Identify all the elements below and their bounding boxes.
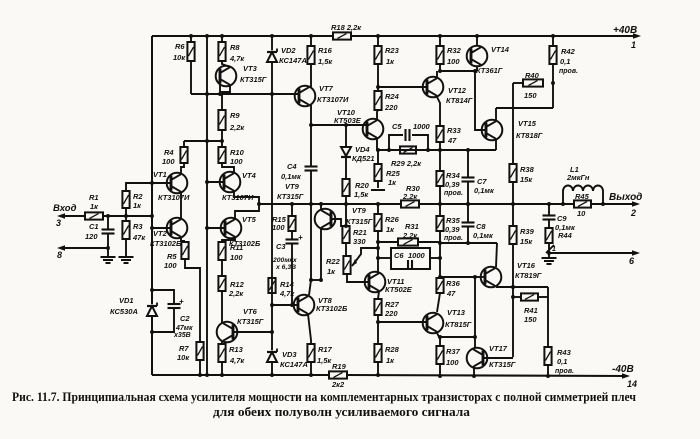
wire -40V bottom rail left segment (152, 374, 329, 376)
svg-text:VD4: VD4 (355, 145, 370, 154)
resistor R41 (521, 293, 538, 300)
svg-text:+: + (179, 297, 184, 306)
svg-text:КТ3102Б: КТ3102Б (316, 304, 348, 313)
wire VT6 emitter to R13 (221, 341, 223, 344)
resistor R33 (436, 126, 443, 142)
svg-text:х 6,3В: х 6,3В (275, 264, 296, 271)
wire VT16 emitter line (496, 286, 548, 288)
resistor R8 (218, 42, 225, 61)
wire -40V bottom rail right segment (347, 375, 627, 376)
wire VT9 base lead (331, 219, 346, 226)
svg-text:VT17: VT17 (489, 344, 508, 353)
wire R33 to bias row (439, 142, 441, 150)
resistor R40 (523, 79, 543, 86)
wire R2 to R3 (125, 208, 127, 221)
svg-text:R19: R19 (332, 362, 347, 371)
svg-text:VT14: VT14 (491, 45, 510, 54)
svg-text:4,7к: 4,7к (279, 289, 295, 298)
svg-text:R3: R3 (133, 222, 143, 231)
svg-text:14: 14 (627, 379, 637, 389)
svg-text:100: 100 (230, 157, 243, 166)
svg-text:R31: R31 (405, 222, 419, 231)
svg-text:С4: С4 (287, 162, 297, 171)
svg-text:КТ815Г: КТ815Г (445, 320, 472, 329)
svg-text:R22: R22 (326, 257, 341, 266)
resistor R18 (333, 32, 351, 39)
svg-text:R5: R5 (167, 252, 177, 261)
resistor R36 (436, 278, 443, 293)
resistor R28 (374, 344, 381, 362)
zener diode VD1 (147, 305, 157, 307)
transistor VT3 (216, 66, 237, 87)
transistor VT1 (167, 173, 188, 194)
svg-text:100: 100 (162, 157, 175, 166)
svg-text:КТ315Г: КТ315Г (346, 217, 373, 226)
resistor R10 (218, 147, 225, 163)
svg-text:пров.: пров. (444, 190, 463, 197)
wire VT12 emitter up (436, 71, 438, 78)
resistor R38 (509, 164, 516, 182)
svg-text:100: 100 (164, 261, 177, 270)
wire VT8 base lead (272, 304, 298, 306)
resistor R29 (400, 146, 416, 153)
resistor R5 (181, 242, 188, 259)
wire R23 top stub (377, 36, 379, 46)
wire R21 to R22 (345, 243, 347, 256)
resistor R31 (378, 241, 398, 243)
wire VT9 emitter join to VT8 collector (311, 279, 321, 281)
wire VT11 emitter to R27 (378, 291, 379, 299)
svg-text:КТ315Г: КТ315Г (489, 360, 516, 369)
wire R36 top line to VT16 base (440, 276, 475, 278)
svg-text:КС147А: КС147А (280, 360, 308, 369)
svg-text:R24: R24 (385, 92, 400, 101)
svg-text:2,2к: 2,2к (402, 231, 418, 240)
svg-text:100: 100 (272, 223, 285, 232)
wire R11 to R12 (221, 260, 223, 276)
svg-text:КТ819Г: КТ819Г (515, 271, 542, 280)
svg-text:Рис. 11.7. Принципиальная схем: Рис. 11.7. Принципиальная схема усилител… (12, 390, 636, 404)
wire R9 to R10 (221, 130, 223, 147)
svg-text:VT3: VT3 (243, 64, 258, 73)
wire C6 box stubs (378, 257, 391, 259)
svg-text:VТ9: VТ9 (285, 182, 300, 191)
svg-text:R11: R11 (230, 243, 243, 252)
svg-text:2,2к: 2,2к (229, 123, 245, 132)
transistor VT10 (363, 119, 384, 140)
wire R37 to bottom rail (439, 364, 441, 376)
svg-text:0,1мк: 0,1мк (281, 172, 302, 181)
svg-text:КТ315Г: КТ315Г (240, 75, 267, 84)
wire R22 bottom to VT11 base (347, 274, 369, 282)
svg-text:R9: R9 (230, 111, 240, 120)
svg-text:КС530А: КС530А (110, 307, 138, 316)
resistor R39 (512, 204, 514, 226)
svg-text:R16: R16 (318, 46, 333, 55)
svg-text:10к: 10к (177, 353, 190, 362)
svg-text:КТ315Г: КТ315Г (237, 317, 264, 326)
wire VT14 emitter to top rail (476, 36, 478, 46)
wire VT2 emitter to R5 (181, 237, 185, 241)
svg-text:0,39: 0,39 (445, 180, 460, 189)
svg-text:R32: R32 (447, 46, 462, 55)
wire R38 to output bus (512, 182, 514, 204)
wire output bus to terminal (591, 203, 637, 205)
svg-text:R17: R17 (318, 345, 333, 354)
svg-text:1к: 1к (133, 201, 142, 210)
node output terminal 2 (632, 201, 640, 207)
svg-text:КД521: КД521 (352, 154, 375, 163)
capacitor C8 (467, 204, 469, 222)
transistor VT16 (481, 267, 502, 288)
svg-text:VT15: VT15 (518, 119, 537, 128)
wire VT16 base lead (475, 276, 485, 278)
svg-text:С2: С2 (180, 314, 190, 323)
wire left border vertical lower (151, 317, 153, 375)
transistor VT2 (167, 218, 188, 239)
svg-text:КТ502Е: КТ502Е (385, 285, 413, 294)
wire VT4 base lead (207, 181, 224, 183)
svg-text:R33: R33 (447, 126, 462, 135)
resistor R4 (180, 147, 187, 163)
resistor R43 (544, 347, 551, 365)
wire VT10 emitter down (377, 138, 378, 150)
resistor R13 (218, 344, 225, 362)
svg-text:150: 150 (524, 91, 537, 100)
svg-text:КТ3107И: КТ3107И (317, 95, 349, 104)
wire R8 top stub (221, 36, 223, 42)
wire R31 to R35 column (418, 241, 440, 243)
svg-text:С6: С6 (394, 251, 404, 260)
zener diode VD2 (271, 36, 273, 50)
wire VD3 to bottom rail (271, 362, 273, 375)
svg-text:4,7к: 4,7к (229, 356, 245, 365)
svg-text:R7: R7 (179, 344, 189, 353)
resistor R19 (329, 371, 347, 378)
wire R5 to R7 column (185, 259, 200, 342)
resistor R45 (574, 200, 591, 207)
wire emitter line down to R41 (547, 287, 549, 297)
svg-text:R40: R40 (525, 71, 540, 80)
wire to VT16 collector (496, 243, 497, 267)
svg-text:R29 2,2к: R29 2,2к (391, 159, 422, 168)
wire R4 top to bias line (183, 141, 185, 147)
transistor VT13 (423, 313, 444, 334)
svg-text:R8: R8 (230, 43, 240, 52)
wire +40V top rail right segment (351, 35, 638, 37)
wire R8 to VT3 collector (222, 61, 230, 67)
svg-text:4,7к: 4,7к (229, 54, 245, 63)
wire line to terminal 6 (549, 252, 637, 254)
capacitor C9 (548, 204, 550, 215)
svg-text:R37: R37 (446, 347, 461, 356)
resistor R12 (218, 276, 225, 291)
wire VT5 base lead (207, 227, 225, 229)
resistor R32 (436, 46, 443, 64)
wire VT1 collector to VT2 collector (180, 192, 182, 219)
node terminal 6 (632, 250, 640, 256)
node terminal 8 (57, 245, 65, 251)
transistor VT8 (294, 295, 315, 316)
zener diode VD3 (267, 351, 277, 353)
wire VT13 emitter to R37 (437, 333, 440, 346)
wire R26 to VT11 collector column (377, 231, 379, 272)
transistor VT4 (220, 172, 241, 193)
wire left border vertical upper (151, 36, 153, 304)
wire R38 column from R40 (512, 83, 514, 164)
wire VT7 collector down to node (310, 105, 312, 125)
resistor R24 (374, 91, 381, 110)
svg-text:пров.: пров. (555, 368, 574, 375)
wire R6 top stub (190, 36, 192, 42)
wire second vertical column (206, 36, 208, 375)
svg-text:47: 47 (447, 136, 457, 145)
svg-text:0,39: 0,39 (445, 225, 460, 234)
wire R41 left stub (513, 296, 521, 298)
svg-text:Выход: Выход (609, 192, 642, 203)
wire VT9 emitter down (320, 229, 322, 280)
capacitor C2 (polarized) (152, 290, 174, 304)
ground under R44 (548, 253, 550, 257)
wire VT15 collector node line (496, 107, 553, 109)
transistor VT15 (482, 120, 503, 141)
svg-text:-40В: -40В (612, 364, 634, 375)
wire VT17 base lead (483, 357, 513, 359)
svg-text:С3: С3 (276, 242, 286, 251)
svg-text:200мкх: 200мкх (272, 257, 298, 264)
wire VT9 collector to output bus (320, 204, 322, 209)
svg-text:220: 220 (384, 103, 398, 112)
svg-text:КТ3102Б: КТ3102Б (150, 239, 182, 248)
resistor R23 (374, 46, 381, 64)
node +40V terminal 1 (633, 33, 641, 39)
svg-text:120: 120 (85, 232, 98, 241)
svg-text:VT12: VT12 (448, 86, 467, 95)
resistor R25 (377, 150, 379, 164)
wire R7 to bottom rail (199, 360, 201, 375)
wire VT12 base lead (378, 86, 427, 88)
svg-text:1000: 1000 (413, 122, 431, 131)
svg-text:47: 47 (446, 289, 456, 298)
svg-text:VD3: VD3 (282, 350, 297, 359)
svg-text:VT5: VT5 (242, 215, 257, 224)
svg-text:С9: С9 (557, 214, 567, 223)
ground under C1 (101, 256, 116, 258)
resistor R17 (307, 344, 314, 362)
resistor R35 (439, 204, 441, 216)
wire R3 to ground (125, 239, 127, 256)
svg-text:1: 1 (552, 246, 556, 253)
capacitor C6 in box (391, 248, 430, 269)
resistor R6 (187, 42, 194, 61)
svg-text:10: 10 (577, 209, 586, 218)
wire R27 to R28 with VT13 base tap (377, 315, 379, 344)
capacitor C7 (467, 150, 469, 177)
wire R40 right column (552, 64, 554, 108)
resistor R21 (342, 226, 349, 243)
wire C9 to R44 (548, 220, 550, 228)
svg-text:0,1: 0,1 (557, 357, 567, 366)
wire R20 to output bus (345, 196, 347, 204)
svg-text:8: 8 (57, 250, 62, 260)
svg-text:VT1: VT1 (153, 170, 167, 179)
svg-text:0,1мк: 0,1мк (474, 186, 495, 195)
svg-text:2,2к: 2,2к (402, 192, 418, 201)
svg-text:2к2: 2к2 (331, 380, 345, 389)
wire R16 top stub (310, 36, 312, 46)
resistor R30 (401, 200, 419, 207)
svg-text:15к: 15к (520, 175, 533, 184)
svg-text:VT4: VT4 (242, 171, 257, 180)
transistor VT11 (365, 272, 386, 293)
svg-text:R23: R23 (385, 46, 400, 55)
svg-text:R4: R4 (164, 148, 174, 157)
wire R32 VT14 node line (440, 70, 477, 72)
svg-text:1,5к: 1,5к (354, 190, 369, 199)
wire R16 to VT7 emitter (310, 64, 312, 87)
node -40V terminal 14 (622, 373, 630, 379)
svg-text:1к: 1к (386, 356, 395, 365)
svg-text:+40В: +40В (613, 25, 637, 36)
wire R2 top to input base line (126, 183, 170, 191)
ground under R3 (119, 256, 134, 258)
svg-text:х35В: х35В (173, 332, 191, 339)
resistor R44 (545, 228, 552, 243)
wire VD4 to R20 (345, 157, 347, 179)
svg-text:VT6: VT6 (243, 307, 258, 316)
wire VT5 emitter to R11 (222, 237, 235, 242)
wire R22 wiper arrow (352, 248, 378, 266)
transistor VT17 (mirrored) (467, 348, 488, 369)
wire R43 to bottom rail (547, 365, 549, 376)
wire mid output bus right (419, 203, 574, 205)
svg-text:VT2: VT2 (153, 229, 168, 238)
resistor R42 (549, 46, 556, 64)
resistor R3 (122, 221, 129, 239)
svg-text:пров.: пров. (444, 235, 463, 242)
transistor VT9 (mirrored) (315, 209, 336, 230)
svg-text:+: + (298, 233, 303, 242)
wire VD2 to VD3 bias column (271, 62, 273, 350)
resistor R9 (218, 110, 225, 130)
wire VT17 emitter to bottom rail (473, 367, 475, 376)
svg-text:R13: R13 (229, 345, 244, 354)
svg-text:КТ818Г: КТ818Г (516, 131, 543, 140)
wire R34 to output bus (439, 186, 441, 204)
svg-text:R36: R36 (446, 279, 461, 288)
resistor R14 (268, 278, 275, 293)
svg-text:1к: 1к (327, 267, 336, 276)
wire R6 bottom to base bias line (190, 61, 192, 94)
wire VT3 base to bias line (219, 84, 221, 94)
wire R4-R10 top line (184, 140, 222, 142)
svg-text:R18 2,2к: R18 2,2к (331, 23, 362, 32)
svg-text:R2: R2 (133, 192, 143, 201)
wire node to VT15 base (475, 71, 486, 130)
svg-text:R12: R12 (230, 280, 245, 289)
svg-text:R38: R38 (520, 165, 535, 174)
svg-text:VT16: VT16 (517, 261, 536, 270)
svg-text:С7: С7 (477, 177, 487, 186)
resistor R7 (196, 342, 203, 360)
wire R12 to VT6 (221, 291, 223, 323)
svg-text:С5: С5 (392, 122, 402, 131)
wire R32 bottom node (439, 64, 441, 71)
svg-text:R10: R10 (230, 148, 245, 157)
wire R35 bottom node row (439, 231, 441, 243)
transistor VT5 (221, 218, 242, 239)
trimmer resistor R22 (343, 256, 350, 274)
resistor R16 (307, 46, 314, 64)
svg-text:R45: R45 (575, 192, 590, 201)
resistor R15 (291, 204, 293, 216)
svg-text:330: 330 (353, 237, 366, 246)
svg-text:КТ315Г: КТ315Г (277, 192, 304, 201)
diode VD4 (345, 125, 347, 147)
wire C4 column below bus (310, 204, 312, 280)
svg-text:КС147А: КС147А (279, 56, 307, 65)
svg-text:2: 2 (630, 208, 636, 218)
wire jumper tick (546, 245, 554, 253)
capacitor C4 (310, 125, 312, 166)
svg-text:6: 6 (629, 256, 635, 266)
svg-text:R39: R39 (520, 227, 535, 236)
svg-text:R20: R20 (355, 181, 370, 190)
svg-text:10к: 10к (173, 53, 186, 62)
wire VT12 collector to R33 (437, 97, 440, 126)
svg-text:R41: R41 (524, 306, 538, 315)
wire output bus to R21 (345, 204, 347, 226)
svg-text:VT13: VT13 (447, 308, 466, 317)
wire VT13 base lead (378, 321, 427, 323)
svg-text:Вход: Вход (53, 203, 77, 214)
wire R39 down to VT17 base (512, 244, 514, 357)
svg-text:3: 3 (56, 218, 61, 228)
transistor VT14 (467, 46, 488, 67)
wire R42 top stub (552, 36, 554, 46)
svg-text:R21: R21 (353, 228, 367, 237)
wire VT8 emitter to R17 (308, 314, 311, 344)
svg-text:VТ9: VТ9 (352, 206, 367, 215)
svg-text:1,5к: 1,5к (317, 356, 332, 365)
wire R10 to VT4 emitter (222, 163, 234, 172)
wire R25 bottom tap (377, 181, 379, 188)
svg-text:R26: R26 (385, 215, 400, 224)
wire R44 bottom node (548, 243, 550, 253)
wire R1 to divider junction (103, 215, 152, 217)
svg-text:R1: R1 (89, 193, 99, 202)
svg-text:47к: 47к (132, 233, 146, 242)
resistor R27 (374, 299, 381, 315)
svg-text:1к: 1к (388, 178, 397, 187)
wire VT14 collector down (476, 67, 478, 72)
svg-text:С8: С8 (476, 222, 486, 231)
wire input to R1 (64, 215, 85, 217)
wire VT7 node to VT10 base (311, 124, 367, 126)
capacitor C3 (polarized) (291, 231, 293, 239)
wire VT2 base lead (152, 227, 171, 229)
svg-text:VD2: VD2 (281, 46, 296, 55)
svg-text:С1: С1 (89, 222, 99, 231)
wire VT16 base column down to VT17 (474, 277, 476, 348)
svg-text:для обеих полуволн усиливаемог: для обеих полуволн усиливаемого сигнала (213, 405, 471, 419)
resistor R34 (439, 150, 441, 171)
capacitor C5 (389, 135, 403, 150)
resistor R37 (436, 346, 443, 364)
wire R32 top stub (439, 36, 441, 46)
wire +40V top rail left segment (152, 35, 333, 37)
resistor R2 (122, 191, 129, 208)
